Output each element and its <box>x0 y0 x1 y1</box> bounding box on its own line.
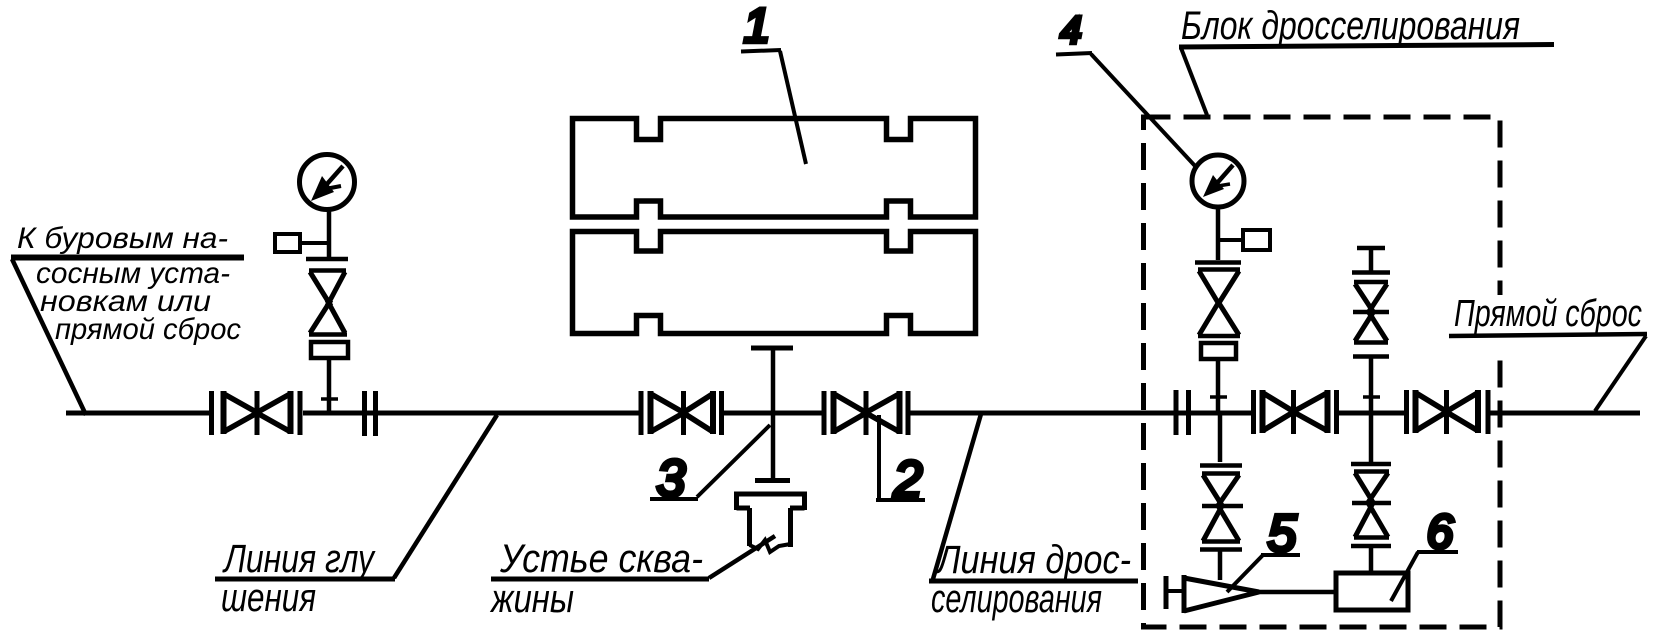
wire: choke branch 2 stem <box>1357 248 1385 573</box>
valve V-B1 choke manifold line valve <box>1254 390 1337 434</box>
label 2 <box>876 415 925 509</box>
svg-text:4: 4 <box>1060 10 1081 52</box>
underline Blok <box>1179 45 1554 48</box>
wellhead tee stem <box>751 348 793 481</box>
label 5 <box>1227 505 1300 592</box>
underline ustye <box>491 577 709 582</box>
junction tick B2 <box>1363 395 1380 399</box>
gap in dashed edge at text band <box>1493 295 1507 352</box>
valve V-C3 lower choke branch 2 <box>1351 464 1391 546</box>
svg-text:К буровым на-: К буровым на- <box>17 222 228 255</box>
leader liniya dros to line <box>933 414 981 579</box>
flange pair F1 <box>365 391 376 436</box>
text: Liniya drosselirovaniya <box>931 538 1131 621</box>
wire: choke outlet to box 6 <box>1257 590 1338 595</box>
gauge M2 needle arrow <box>1203 165 1233 197</box>
BOP stack item 1 upper preventer <box>573 119 976 218</box>
svg-text:Линия глу: Линия глу <box>222 537 377 581</box>
svg-text:Блок дросселирования: Блок дросселирования <box>1181 4 1520 48</box>
label 6 <box>1391 506 1458 601</box>
flange pair F2 <box>1176 390 1189 435</box>
pressure gauge M2 <box>1192 155 1244 207</box>
gauge M1 needle arrow <box>311 166 343 201</box>
pressure gauge M1 <box>300 155 355 210</box>
svg-text:Устье сква-: Устье сква- <box>499 537 703 581</box>
valve V-M1 gauge isolation <box>306 259 348 358</box>
wire: main flow line <box>66 411 1640 416</box>
wire: gauge M1 stem <box>327 209 332 411</box>
valve V-B2 choke manifold line valve <box>1407 390 1489 434</box>
valve V-C1 lower choke branch 1 <box>1200 466 1243 550</box>
svg-text:1: 1 <box>744 0 771 53</box>
label 3 <box>650 425 770 508</box>
leader Blok to box <box>1181 48 1207 115</box>
underline Pryamoy <box>1449 334 1647 336</box>
leader ustye to wellhead <box>709 536 775 578</box>
dashed enclosure choke manifold <box>1144 117 1501 627</box>
leader left text to line <box>12 259 86 415</box>
leader liniya glusheniya <box>394 415 497 578</box>
label 4 <box>1056 10 1196 167</box>
adjustable choke item 5 <box>1166 575 1259 613</box>
wellhead body <box>734 492 807 552</box>
label 1 <box>741 0 806 164</box>
choke box item 6 <box>1336 573 1408 610</box>
junction tick M1 stem <box>321 397 338 401</box>
leader Pryamoy to line <box>1595 336 1646 411</box>
text: Liniya glusheniya <box>221 537 376 620</box>
junction tick B1 <box>1210 395 1227 399</box>
svg-text:жины: жины <box>489 577 574 621</box>
underline liniya glu <box>215 577 395 582</box>
svg-text:Прямой сброс: Прямой сброс <box>1454 293 1642 335</box>
wire: choke branch 1 stem lower <box>1218 411 1223 580</box>
underline left text <box>11 255 244 261</box>
damper box M1 <box>275 234 329 252</box>
svg-text:шения: шения <box>221 576 316 620</box>
wire: choke branch 1 stem upper <box>1216 207 1221 411</box>
text: Ustye skvazhiny <box>489 537 703 621</box>
underline liniya dros <box>929 579 1138 584</box>
valve 2 <box>824 391 908 435</box>
svg-text:прямой сброс: прямой сброс <box>55 313 241 346</box>
BOP stack item 1 lower preventer <box>573 232 976 334</box>
svg-text:селирования: селирования <box>931 577 1102 621</box>
valve V-M2 gauge isolation <box>1195 263 1241 360</box>
svg-text:Линия дрос-: Линия дрос- <box>934 538 1131 582</box>
valve 3 <box>641 391 722 435</box>
damper box M2 <box>1218 230 1270 250</box>
text block: K burovym nasosnym <box>17 222 241 346</box>
valve V-C2 upper choke branch 2 <box>1352 273 1390 357</box>
valve V-A kill line gate valve <box>212 391 301 435</box>
